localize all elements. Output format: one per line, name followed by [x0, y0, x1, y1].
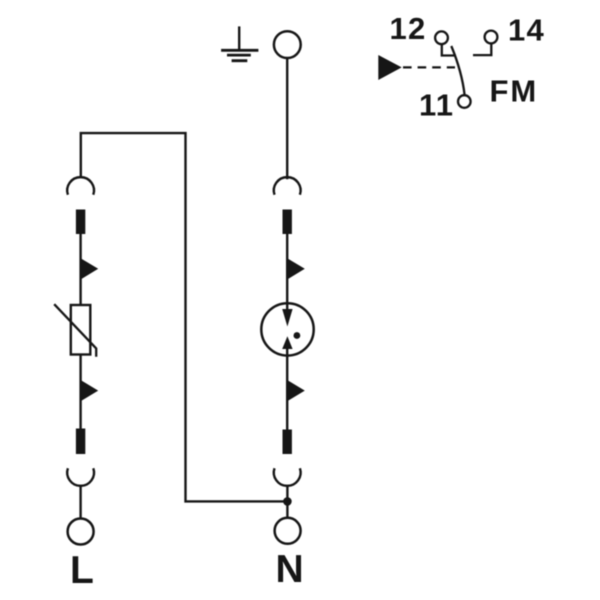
wire (pin 14 fixed contact bracket) [473, 44, 491, 56]
disconnect arrow (L branch lower) [81, 380, 98, 401]
node junction dot [283, 497, 292, 506]
disconnect arrow (N branch upper) [288, 259, 305, 280]
terminal N circle [275, 518, 301, 544]
varistor diagonal stroke [54, 304, 96, 357]
gas filling dot [294, 332, 301, 339]
gas discharge tube / spark gap circle [261, 303, 313, 355]
contact bar (L branch bottom) [76, 429, 85, 455]
wire (L branch riser up, across, and down to N node) [81, 133, 284, 501]
terminal PE (earth terminal circle) [274, 31, 301, 58]
wire (cup to L terminal) [79, 485, 81, 519]
pin 12 contact circle [435, 31, 448, 44]
spark gap lower electrode arrow [282, 336, 292, 349]
pin 11 contact circle [458, 95, 471, 108]
svg-text:L: L [70, 549, 94, 592]
svg-text:N: N [276, 548, 304, 591]
ground [221, 26, 258, 60]
svg-text:14: 14 [508, 13, 545, 48]
contact bar (N branch top) [283, 210, 292, 235]
wire (spark gap to lower bar) [286, 340, 288, 430]
wire (cup through node to N terminal) [286, 485, 288, 518]
wire (PE terminal down to N-branch plug) [286, 58, 288, 179]
plug-in disconnect cup arc (N branch bottom) [274, 468, 301, 486]
varistor RV [71, 305, 91, 355]
switch lever (changeover contact) [451, 46, 464, 95]
FM signal arrow [378, 55, 401, 80]
wire (bar into spark gap) [286, 234, 288, 322]
contact bar (N branch bottom) [283, 430, 292, 455]
svg-text:11: 11 [419, 88, 454, 123]
plug-in disconnect socket arc (L branch top) [67, 177, 94, 195]
spark gap upper electrode arrow [282, 309, 292, 327]
disconnect arrow (N branch lower) [288, 380, 305, 401]
wire (bar to varistor) [79, 234, 81, 306]
plug-in disconnect socket arc (N branch top) [274, 177, 301, 195]
pin 14 contact circle [485, 31, 498, 44]
plug-in disconnect cup arc (L branch bottom) [67, 468, 94, 486]
wire (pin 12 fixed contact bracket) [442, 44, 456, 55]
terminal L circle [68, 519, 94, 545]
svg-text:FM: FM [490, 74, 539, 109]
wire (dashed actuation link) [403, 66, 455, 68]
wire (varistor to lower bar) [79, 355, 81, 429]
disconnect arrow (L branch upper) [81, 259, 98, 280]
contact bar (L branch top) [76, 210, 85, 235]
svg-text:12: 12 [390, 11, 427, 46]
